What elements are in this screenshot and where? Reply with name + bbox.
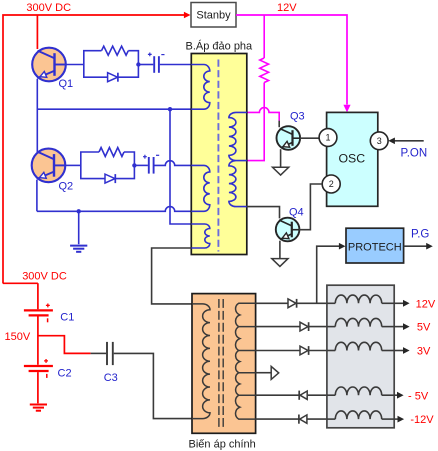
svg-text:B.Áp đảo pha: B.Áp đảo pha: [186, 40, 254, 53]
arrowhead P.ON: [388, 138, 395, 145]
svg-text:3V: 3V: [417, 346, 431, 358]
T1 primary winding 2: [191, 165, 210, 211]
T1 secondary winding: [229, 112, 247, 206]
capacitor Q2 coupling: [148, 157, 150, 174]
wire 3V output row: [256, 350, 300, 352]
ground (red earth): [30, 404, 47, 406]
wire 5V output row: [256, 326, 300, 328]
wire Q1 emitter rail (blue): [37, 108, 191, 110]
junction dot Q2 emitter: [77, 209, 81, 213]
inductor L5: [327, 418, 335, 420]
transistor Q4: [276, 218, 300, 242]
resistor Q1 base (blue): [102, 46, 129, 55]
wire 300V to C1: [3, 283, 38, 309]
pin 3 OSC: [370, 132, 388, 150]
svg-text:P.ON: P.ON: [401, 147, 428, 159]
capacitor C1 (red): [24, 309, 53, 311]
block PROTECH: [346, 228, 404, 263]
arrowhead P.G: [426, 243, 433, 250]
wire to C coupling Q1: [138, 64, 153, 66]
wire dropper to T1 tap (magenta): [247, 83, 264, 161]
filter block (gray): [327, 285, 394, 428]
T1 primary winding 1: [191, 65, 210, 110]
arrowhead 12V: [403, 300, 410, 307]
wire Q1 base: [66, 64, 84, 66]
junction dot Q1 network: [136, 62, 140, 66]
wire to C coupling Q2: [134, 164, 148, 166]
wire Q2 base: [65, 164, 81, 166]
svg-text:PROTECH: PROTECH: [348, 242, 402, 254]
svg-text:C3: C3: [104, 372, 118, 384]
diode D 3V: [300, 346, 308, 355]
wire - 5V output: [394, 394, 398, 396]
inductor L1: [327, 302, 335, 304]
inductor L2: [327, 326, 335, 328]
diode Q2 base (blue): [105, 174, 115, 183]
wire C1 to C2: [37, 317, 39, 365]
T1 primary winding 3: [191, 224, 210, 248]
capacitor Q1 coupling: [153, 56, 155, 73]
wire Q4 emitter to ground: [279, 241, 281, 259]
wire center tap: [256, 372, 272, 374]
wire Q2 network frame: [81, 152, 135, 179]
svg-text:150V: 150V: [5, 331, 31, 343]
svg-text:1: 1: [325, 133, 330, 143]
wire to ground (blue): [78, 211, 80, 244]
wire P.ON input: [391, 140, 423, 142]
arrowhead into Stanby: [184, 12, 191, 19]
wire C to T1 winding2 top (hop): [155, 161, 192, 166]
center tap arrow (hollow): [271, 366, 279, 379]
wire -12V output: [394, 418, 398, 420]
inductor L4: [327, 394, 335, 396]
transformer T2 Bien ap chinh box: [192, 294, 256, 434]
wire Q3 base (black): [278, 121, 280, 128]
wire Q4 collector to OSC pin2: [299, 184, 322, 230]
wire 3V output: [394, 350, 404, 352]
wire center branch down (blue): [170, 109, 192, 224]
ground (blue earth): [70, 245, 87, 247]
svg-text:Stanby: Stanby: [196, 10, 231, 22]
junction dot Q2 network: [132, 163, 136, 167]
inductor L3: [327, 350, 335, 352]
arrowhead 12V into OSC: [343, 105, 350, 113]
transistor Q3: [277, 126, 301, 150]
wire T1 tap to Q3 base (magenta, hop): [247, 108, 279, 121]
wire T1 winding3 to T2 (black): [152, 248, 192, 304]
arrowhead PROTECH input: [339, 243, 346, 250]
svg-text:Q4: Q4: [289, 206, 304, 218]
wire 300V DC top rail (red): [3, 15, 184, 284]
wire 12V rail (magenta): [236, 15, 347, 105]
svg-text:5V: 5V: [417, 322, 431, 334]
svg-text:2: 2: [329, 179, 334, 189]
wire 5V output: [394, 326, 404, 328]
wire Q1 emitter / Q2 collector (blue): [36, 79, 38, 153]
wire 150V branch to C3 (red): [38, 336, 91, 354]
T2 primary winding: [192, 304, 210, 419]
core dashed lines T2: [218, 299, 220, 427]
svg-text:- 5V: - 5V: [408, 390, 429, 402]
pin 2 OSC: [322, 175, 340, 193]
svg-text:-12V: -12V: [410, 414, 434, 426]
wire Q1 collector feed (red): [36, 15, 38, 49]
wire -5V output row: [256, 394, 300, 396]
svg-text:C2: C2: [58, 367, 72, 379]
core dashed line T1: [217, 60, 219, 252]
ground Q3: [273, 167, 289, 175]
wire C2 to ground: [37, 372, 39, 403]
pin 1 OSC: [319, 129, 337, 147]
wire P.G output: [404, 245, 428, 247]
wire 12V output: [394, 302, 404, 304]
wire 12V dropper feed (magenta): [263, 15, 265, 58]
transistor Q1: [32, 48, 66, 82]
svg-text:12V: 12V: [416, 298, 436, 310]
transistor Q2: [32, 149, 66, 183]
capacitor C2 (red): [24, 365, 53, 367]
wire -12V output row: [256, 418, 299, 420]
svg-text:Q2: Q2: [59, 180, 74, 192]
wire C3 to T2 primary bottom: [114, 353, 192, 418]
wire T1 tap to Q4 base (black): [247, 207, 280, 219]
svg-text:12V: 12V: [277, 2, 297, 14]
svg-text:Biến áp chính: Biến áp chính: [189, 439, 256, 451]
transformer T1 B.Ap dao pha box: [191, 54, 247, 255]
wire Q1 network frame: [84, 51, 139, 77]
diode D 5V: [300, 322, 308, 331]
diode D -12V: [298, 415, 300, 424]
diode D -5V: [298, 391, 300, 400]
svg-text:Q1: Q1: [59, 78, 74, 90]
diode Q1 base (blue): [108, 73, 118, 82]
wire Q2 emitter rail (blue, hop): [37, 180, 192, 212]
arrowhead 5V: [403, 323, 410, 330]
resistor 12V dropper (magenta): [260, 58, 269, 83]
resistor Q2 base (blue): [99, 148, 124, 157]
wire C to T1 winding1 top: [160, 64, 192, 66]
arrowhead 3V: [403, 347, 410, 354]
wire Q3 collector to OSC pin1: [300, 137, 319, 139]
diode D 12V: [288, 299, 296, 308]
junction dot emitter rail: [168, 107, 172, 111]
svg-text:OSC: OSC: [338, 151, 365, 165]
svg-text:3: 3: [377, 136, 382, 146]
ground Q4: [272, 259, 288, 267]
wire Q3 emitter to ground: [280, 149, 282, 167]
svg-text:300V DC: 300V DC: [22, 270, 67, 282]
svg-text:C1: C1: [60, 311, 74, 323]
wire 12V output row: [256, 302, 288, 304]
svg-text:300V DC: 300V DC: [26, 2, 71, 14]
T2 secondary winding: [236, 303, 256, 419]
svg-text:Q3: Q3: [290, 111, 305, 123]
block Stanby: [191, 3, 236, 28]
capacitor C3: [106, 342, 108, 365]
wire PROTECH input: [317, 246, 340, 303]
arrowhead -12V: [398, 416, 405, 423]
wire to C3 (black): [91, 352, 107, 354]
arrowhead - 5V: [397, 392, 404, 399]
svg-text:P.G: P.G: [411, 228, 429, 240]
block OSC: [327, 112, 378, 206]
